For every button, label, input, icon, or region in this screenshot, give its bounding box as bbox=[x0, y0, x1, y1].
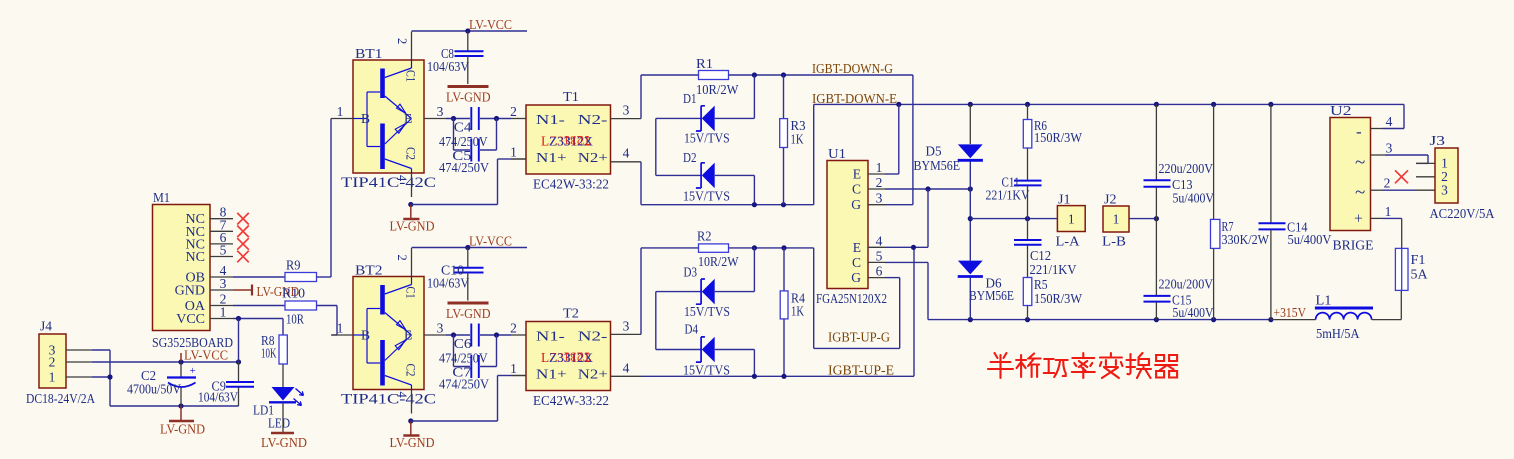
svg-text:T1: T1 bbox=[563, 89, 579, 104]
svg-text:L-A: L-A bbox=[1056, 234, 1080, 249]
svg-text:R2: R2 bbox=[697, 229, 712, 244]
svg-text:LED: LED bbox=[268, 416, 290, 431]
svg-text:1: 1 bbox=[1385, 204, 1392, 219]
svg-text:J1: J1 bbox=[1058, 192, 1071, 207]
svg-text:IGBT-UP-E: IGBT-UP-E bbox=[828, 363, 894, 378]
svg-text:474/250V: 474/250V bbox=[439, 134, 488, 149]
svg-text:3: 3 bbox=[623, 319, 630, 334]
svg-text:LV-GND: LV-GND bbox=[390, 219, 435, 234]
svg-text:C2: C2 bbox=[404, 364, 418, 377]
svg-text:10R/2W: 10R/2W bbox=[696, 82, 739, 97]
svg-text:6: 6 bbox=[876, 264, 883, 279]
svg-text:LV-GND: LV-GND bbox=[446, 90, 491, 105]
svg-text:3: 3 bbox=[876, 191, 883, 206]
svg-text:G: G bbox=[851, 197, 861, 212]
svg-text:1: 1 bbox=[510, 361, 517, 376]
svg-text:VCC: VCC bbox=[176, 312, 205, 327]
svg-text:LV-GND: LV-GND bbox=[261, 435, 307, 450]
svg-text:N2-: N2- bbox=[578, 112, 608, 127]
svg-text:D3: D3 bbox=[684, 265, 698, 280]
svg-text:15V/TVS: 15V/TVS bbox=[684, 304, 730, 319]
svg-text:1K: 1K bbox=[791, 304, 804, 319]
svg-text:EC42W-33:22: EC42W-33:22 bbox=[533, 393, 609, 408]
svg-text:1: 1 bbox=[337, 321, 344, 336]
svg-text:4: 4 bbox=[623, 146, 630, 161]
svg-text:IGBT-DOWN-G: IGBT-DOWN-G bbox=[812, 61, 893, 76]
svg-text:4: 4 bbox=[876, 233, 883, 248]
svg-text:5u/400V: 5u/400V bbox=[1173, 305, 1214, 320]
svg-text:D5: D5 bbox=[926, 144, 942, 159]
svg-text:N1-: N1- bbox=[536, 112, 566, 127]
svg-text:NC: NC bbox=[186, 250, 205, 265]
svg-text:G: G bbox=[851, 270, 861, 285]
svg-text:T2: T2 bbox=[563, 306, 579, 321]
svg-text:LV-GND: LV-GND bbox=[446, 306, 491, 321]
svg-text:D2: D2 bbox=[683, 150, 697, 165]
svg-text:4: 4 bbox=[1386, 114, 1393, 129]
svg-text:T231: T231 bbox=[564, 350, 591, 365]
svg-text:150R/3W: 150R/3W bbox=[1034, 130, 1082, 145]
svg-text:N1-: N1- bbox=[536, 329, 566, 344]
svg-text:R10: R10 bbox=[282, 286, 305, 301]
svg-text:104/63V: 104/63V bbox=[427, 59, 469, 74]
svg-text:F1: F1 bbox=[1411, 252, 1426, 267]
svg-text:C1: C1 bbox=[404, 287, 418, 299]
svg-text:E: E bbox=[404, 111, 412, 126]
svg-text:D1: D1 bbox=[683, 91, 697, 106]
svg-text:3: 3 bbox=[437, 104, 444, 119]
svg-text:3: 3 bbox=[1386, 141, 1393, 156]
svg-text:4: 4 bbox=[395, 175, 409, 182]
svg-text:AC220V/5A: AC220V/5A bbox=[1430, 206, 1495, 221]
svg-text:2: 2 bbox=[510, 321, 517, 336]
svg-text:2: 2 bbox=[49, 355, 56, 370]
svg-text:-: - bbox=[1356, 122, 1362, 141]
svg-text:3: 3 bbox=[220, 276, 227, 291]
svg-text:R1: R1 bbox=[696, 56, 713, 71]
svg-text:BT2: BT2 bbox=[355, 263, 383, 278]
svg-text:2: 2 bbox=[395, 38, 409, 44]
svg-text:3: 3 bbox=[437, 321, 444, 336]
svg-text:5A: 5A bbox=[1411, 267, 1428, 282]
svg-text:1: 1 bbox=[876, 160, 883, 175]
svg-text:J2: J2 bbox=[1104, 192, 1117, 207]
svg-text:+315V: +315V bbox=[1274, 305, 1307, 320]
svg-text:5: 5 bbox=[876, 248, 883, 263]
svg-text:220u/200V: 220u/200V bbox=[1159, 161, 1214, 176]
svg-text:IGBT-UP-G: IGBT-UP-G bbox=[828, 330, 890, 345]
svg-text:J4: J4 bbox=[40, 319, 52, 334]
svg-text:EC42W-33:22: EC42W-33:22 bbox=[533, 177, 609, 192]
svg-text:2: 2 bbox=[876, 175, 883, 190]
svg-text:221/1KV: 221/1KV bbox=[1030, 262, 1077, 277]
svg-text:U1: U1 bbox=[828, 146, 846, 161]
svg-text:T231: T231 bbox=[564, 133, 591, 148]
svg-text:~: ~ bbox=[1355, 182, 1365, 203]
svg-text:1: 1 bbox=[1113, 212, 1120, 227]
svg-text:N2+: N2+ bbox=[578, 150, 608, 165]
svg-text:4: 4 bbox=[623, 361, 630, 376]
svg-text:104/63V: 104/63V bbox=[198, 390, 238, 405]
svg-text:1K: 1K bbox=[791, 132, 804, 147]
svg-text:220u/200V: 220u/200V bbox=[1159, 277, 1214, 292]
svg-text:C: C bbox=[852, 255, 861, 270]
svg-text:C12: C12 bbox=[1030, 248, 1051, 263]
svg-text:J3: J3 bbox=[1430, 133, 1446, 148]
svg-text:L1: L1 bbox=[1316, 293, 1332, 308]
svg-text:C2: C2 bbox=[404, 147, 418, 160]
svg-text:5u/400V: 5u/400V bbox=[1288, 232, 1332, 247]
svg-text:10R/2W: 10R/2W bbox=[698, 254, 739, 269]
svg-text:E: E bbox=[853, 167, 861, 182]
svg-text:15V/TVS: 15V/TVS bbox=[684, 131, 730, 146]
svg-text:5u/400V: 5u/400V bbox=[1173, 191, 1215, 206]
svg-text:3: 3 bbox=[623, 103, 630, 118]
svg-text:BT1: BT1 bbox=[355, 46, 383, 61]
svg-text:L-B: L-B bbox=[1102, 234, 1126, 249]
svg-text:IGBT-DOWN-E: IGBT-DOWN-E bbox=[812, 91, 897, 106]
svg-text:474/250V: 474/250V bbox=[439, 377, 489, 392]
svg-text:R5: R5 bbox=[1034, 277, 1048, 292]
svg-text:DC18-24V/2A: DC18-24V/2A bbox=[26, 391, 95, 406]
svg-text:+: + bbox=[1354, 211, 1363, 228]
svg-text:474/250V: 474/250V bbox=[439, 351, 488, 366]
svg-text:10K: 10K bbox=[261, 346, 277, 361]
svg-text:E: E bbox=[404, 328, 412, 343]
svg-text:U2: U2 bbox=[1330, 103, 1352, 118]
svg-text:TIP41C-42C: TIP41C-42C bbox=[341, 175, 436, 191]
svg-text:LV-VCC: LV-VCC bbox=[469, 17, 512, 32]
svg-text:1: 1 bbox=[337, 104, 344, 119]
svg-text:N2-: N2- bbox=[578, 329, 608, 344]
svg-text:R9: R9 bbox=[286, 258, 301, 273]
svg-text:BYM56E: BYM56E bbox=[969, 288, 1014, 303]
svg-text:1: 1 bbox=[510, 145, 517, 160]
svg-text:2: 2 bbox=[395, 255, 409, 261]
svg-text:330K/2W: 330K/2W bbox=[1222, 232, 1270, 247]
svg-text:LV-GND: LV-GND bbox=[390, 435, 435, 450]
svg-text:B: B bbox=[361, 328, 370, 343]
svg-text:1: 1 bbox=[49, 370, 56, 385]
svg-text:N1+: N1+ bbox=[536, 150, 567, 165]
svg-text:C4: C4 bbox=[454, 120, 472, 135]
svg-text:4700u/50V: 4700u/50V bbox=[127, 382, 181, 397]
svg-text:B: B bbox=[361, 111, 370, 126]
svg-text:15V/TVS: 15V/TVS bbox=[683, 363, 730, 378]
svg-text:5mH/5A: 5mH/5A bbox=[1316, 326, 1360, 341]
svg-text:10R: 10R bbox=[286, 312, 304, 327]
svg-text:2: 2 bbox=[1384, 176, 1391, 191]
svg-text:3: 3 bbox=[1441, 183, 1448, 198]
svg-text:BYM56E: BYM56E bbox=[914, 158, 961, 173]
svg-text:1: 1 bbox=[1068, 212, 1075, 227]
svg-text:LV-VCC: LV-VCC bbox=[469, 234, 512, 249]
svg-text:150R/3W: 150R/3W bbox=[1034, 291, 1082, 306]
svg-text:LV-GND: LV-GND bbox=[160, 422, 205, 437]
svg-text:GND: GND bbox=[175, 284, 205, 299]
svg-text:N2+: N2+ bbox=[578, 367, 608, 382]
svg-text:104/63V: 104/63V bbox=[427, 276, 469, 291]
svg-text:SG3525BOARD: SG3525BOARD bbox=[152, 335, 233, 350]
svg-text:~: ~ bbox=[1355, 152, 1365, 173]
svg-text:5: 5 bbox=[220, 243, 227, 258]
svg-text:FGA25N120X2: FGA25N120X2 bbox=[816, 291, 887, 306]
svg-text:221/1KV: 221/1KV bbox=[986, 188, 1030, 203]
svg-text:TIP41C-42C: TIP41C-42C bbox=[341, 392, 436, 408]
svg-text:C: C bbox=[852, 182, 861, 197]
svg-text:BRIGE: BRIGE bbox=[1333, 238, 1374, 253]
svg-text:D4: D4 bbox=[685, 322, 699, 337]
svg-text:E: E bbox=[853, 240, 861, 255]
svg-text:M1: M1 bbox=[153, 190, 170, 205]
svg-text:C1: C1 bbox=[404, 70, 418, 82]
svg-text:N1+: N1+ bbox=[536, 367, 567, 382]
svg-text:474/250V: 474/250V bbox=[439, 160, 489, 175]
svg-text:+: + bbox=[190, 365, 196, 377]
svg-text:2: 2 bbox=[510, 104, 517, 119]
svg-text:1: 1 bbox=[220, 305, 227, 320]
svg-text:C6: C6 bbox=[454, 336, 472, 351]
svg-text:15V/TVS: 15V/TVS bbox=[683, 189, 730, 204]
svg-text:4: 4 bbox=[395, 392, 409, 399]
